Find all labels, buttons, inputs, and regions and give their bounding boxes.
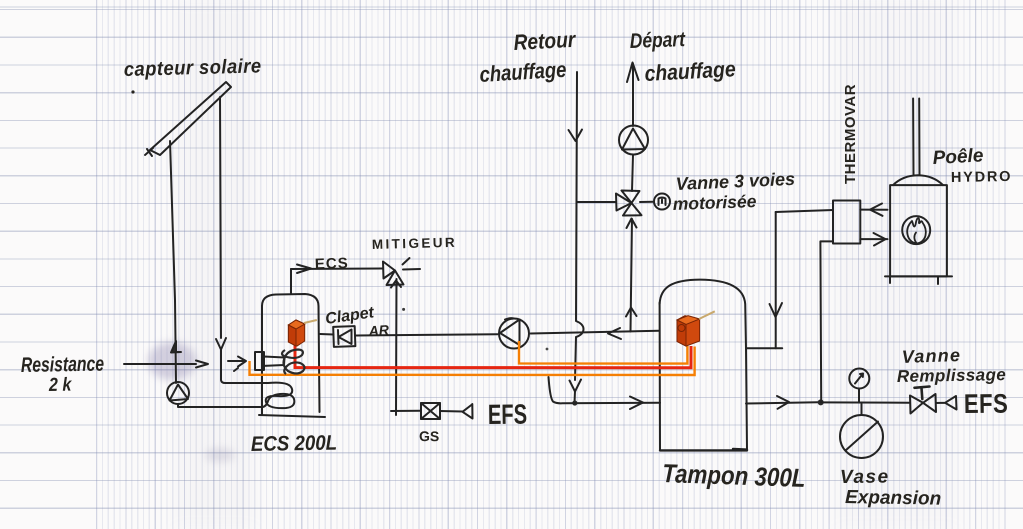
- arrow up below mitigeur: [391, 281, 401, 288]
- svg-text:EFS: EFS: [488, 399, 527, 430]
- black curl around red pipe: [282, 350, 304, 375]
- svg-text:ECS 200L: ECS 200L: [251, 432, 338, 457]
- svg-text:Poêle: Poêle: [932, 145, 984, 169]
- wire ECS tank top stub: [290, 269, 292, 294]
- arrow into heater nozzle: [228, 357, 246, 372]
- heater flange: [255, 352, 264, 370]
- orange sensor cube ECS: [288, 320, 316, 346]
- pump P3 middle: [499, 318, 529, 348]
- scan shadow band right: [836, 0, 956, 529]
- smudge near resistance line: [148, 342, 196, 380]
- smudge below ECS label: [205, 448, 235, 462]
- tampon tank body: [660, 280, 747, 450]
- wire EFS to GS line: [391, 410, 421, 412]
- svg-text:Retour: Retour: [513, 28, 577, 56]
- arrow down on poele drop: [770, 303, 783, 317]
- svg-text:motorisée: motorisée: [672, 191, 757, 214]
- junction dot retour: [572, 400, 577, 405]
- vase expansion vessel: [840, 403, 883, 458]
- arrow down on solar right pipe: [216, 338, 226, 350]
- arrow up depart: [627, 63, 639, 83]
- svg-text:GS: GS: [419, 428, 439, 444]
- GS valve square with X: [421, 403, 440, 419]
- wire solar right pipe: [220, 97, 221, 338]
- wire depart chauffage vertical upper: [632, 64, 634, 126]
- thermovar box: [833, 201, 860, 244]
- orange pipe ECS to tampon lower: [250, 347, 695, 376]
- wire solar left pipe: [170, 141, 176, 383]
- solar collector panel: [145, 82, 231, 156]
- arrow EFS left-pointing: [463, 404, 473, 419]
- tank ECS bottom: [259, 415, 325, 417]
- wire middle pump line: [531, 331, 660, 334]
- svg-text:Vanne: Vanne: [901, 345, 961, 367]
- svg-text:AR: AR: [367, 322, 390, 340]
- svg-text:EFS: EFS: [964, 390, 1009, 420]
- wire pump to tank bottom: [178, 404, 262, 407]
- wire GS to EFS arrow: [440, 410, 463, 413]
- wire clapet to vertical: [356, 334, 498, 335]
- arrow resistance feed: [196, 361, 208, 368]
- tampon bottom: [660, 449, 747, 450]
- arrow left thermovar top: [870, 204, 883, 216]
- svg-text:Départ: Départ: [629, 29, 686, 54]
- coil heat exchanger in ECS tank: [262, 383, 294, 409]
- wire tank to clapet: [320, 333, 334, 336]
- clapet AR check valve: [333, 326, 355, 347]
- tank ECS 200L body: [262, 294, 320, 412]
- wire solar right pipe lower: [221, 349, 268, 383]
- arrow left on middle line: [608, 328, 621, 339]
- svg-text:Expansion: Expansion: [845, 487, 941, 510]
- heater element: [264, 357, 285, 366]
- arrow right thermovar bottom: [874, 233, 886, 246]
- wire thermovar corner: [776, 210, 833, 212]
- svg-text:2 k: 2 k: [48, 373, 73, 395]
- chimney: [913, 99, 919, 176]
- red pipe ECS to tampon: [295, 345, 691, 368]
- arrow EFS right: [936, 396, 957, 410]
- pressure gauge: [849, 369, 869, 403]
- orange sensor cube tampon: [677, 311, 715, 346]
- ink dot center page: [546, 348, 549, 351]
- arrow up on solar left pipe: [171, 341, 181, 353]
- pump P1 solar: [167, 382, 189, 404]
- wire tampon out to junction: [746, 402, 818, 403]
- arrow down on retour upper: [569, 130, 583, 142]
- arrow ECS outlet: [297, 265, 311, 274]
- wire pump to valve: [632, 155, 633, 192]
- arrow right on tampon feed: [630, 397, 643, 410]
- svg-text:THERMOVAR: THERMOVAR: [842, 84, 859, 184]
- svg-text:Vase: Vase: [840, 467, 890, 488]
- svg-text:HYDRO: HYDRO: [951, 169, 1013, 186]
- wire retour chauffage vertical: [575, 72, 584, 380]
- wire valve to pump line vertical: [631, 219, 633, 332]
- ink dot below mitigeur: [402, 308, 405, 311]
- wire poele drop to tampon: [775, 212, 777, 348]
- tampon side stub: [747, 347, 782, 349]
- scan shadow band left: [175, 0, 255, 529]
- vanne remplissage valve: [910, 387, 936, 414]
- wire ECS outlet line: [291, 268, 383, 271]
- wire thermovar left down: [820, 241, 833, 402]
- svg-text:Tampon 300L: Tampon 300L: [662, 459, 806, 493]
- arrow up on valve drop lower: [626, 308, 637, 317]
- arrow up on valve drop upper: [627, 219, 637, 229]
- svg-text:MITIGEUR: MITIGEUR: [372, 235, 458, 252]
- mitigeur valve: [383, 258, 420, 285]
- svg-text:capteur solaire: capteur solaire: [124, 56, 262, 81]
- svg-text:chauffage: chauffage: [479, 58, 567, 87]
- wire resistance feed line: [124, 363, 196, 365]
- arrow down on retour: [570, 380, 582, 392]
- orange pipe pump to tampon: [519, 341, 687, 364]
- wire retour to 3-way valve: [577, 201, 617, 203]
- svg-text:Remplissage: Remplissage: [897, 365, 1007, 386]
- 3-way valve V3V: [616, 191, 642, 216]
- poele hydro body: [885, 175, 952, 284]
- flame symbol in poele: [902, 216, 930, 244]
- wire thermovar to poele top: [860, 209, 887, 211]
- wire thermovar to poele bottom: [860, 238, 887, 240]
- wire retour lower to junction: [574, 391, 577, 403]
- wire tampon feed bottom: [549, 377, 661, 403]
- svg-text:ECS: ECS: [315, 255, 349, 273]
- wire junction to vanne remplissage: [821, 401, 909, 403]
- svg-text:Vanne 3 voies: Vanne 3 voies: [675, 169, 795, 194]
- junction dot right: [818, 399, 824, 405]
- svg-text:chauffage: chauffage: [644, 57, 736, 86]
- motor M circle: [640, 194, 670, 210]
- wire mitigeur cold feed vertical: [395, 279, 398, 415]
- arrow right tampon out: [777, 396, 789, 409]
- dot: [131, 90, 134, 93]
- pump P2 depart: [619, 126, 648, 155]
